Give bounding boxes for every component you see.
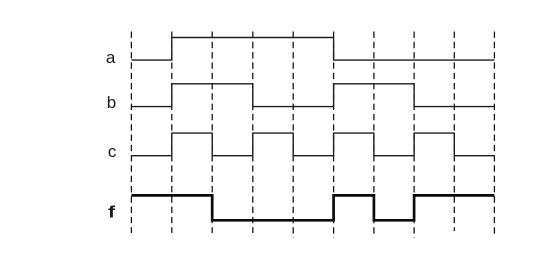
grid dashed vertical line t7 xyxy=(413,32,415,239)
signal b waveform xyxy=(131,84,494,107)
grid dashed vertical line t5 xyxy=(333,32,335,239)
grid dashed vertical line t8 xyxy=(453,32,455,232)
grid dashed vertical line t3 xyxy=(252,32,254,234)
grid dashed vertical line t6 xyxy=(373,32,375,238)
svg-text:a: a xyxy=(106,48,116,67)
grid dashed vertical line t9 xyxy=(493,32,495,237)
signal c waveform xyxy=(131,133,494,156)
grid dashed vertical line t4 xyxy=(292,32,294,239)
svg-text:c: c xyxy=(108,142,117,161)
signal a waveform xyxy=(131,38,494,61)
svg-text:f: f xyxy=(108,202,115,221)
grid dashed vertical line t2 xyxy=(211,32,213,234)
grid dashed vertical line t0 xyxy=(130,32,132,234)
svg-text:b: b xyxy=(107,93,116,112)
grid dashed vertical line t1 xyxy=(171,32,173,234)
signal f waveform (bold) xyxy=(131,195,494,220)
